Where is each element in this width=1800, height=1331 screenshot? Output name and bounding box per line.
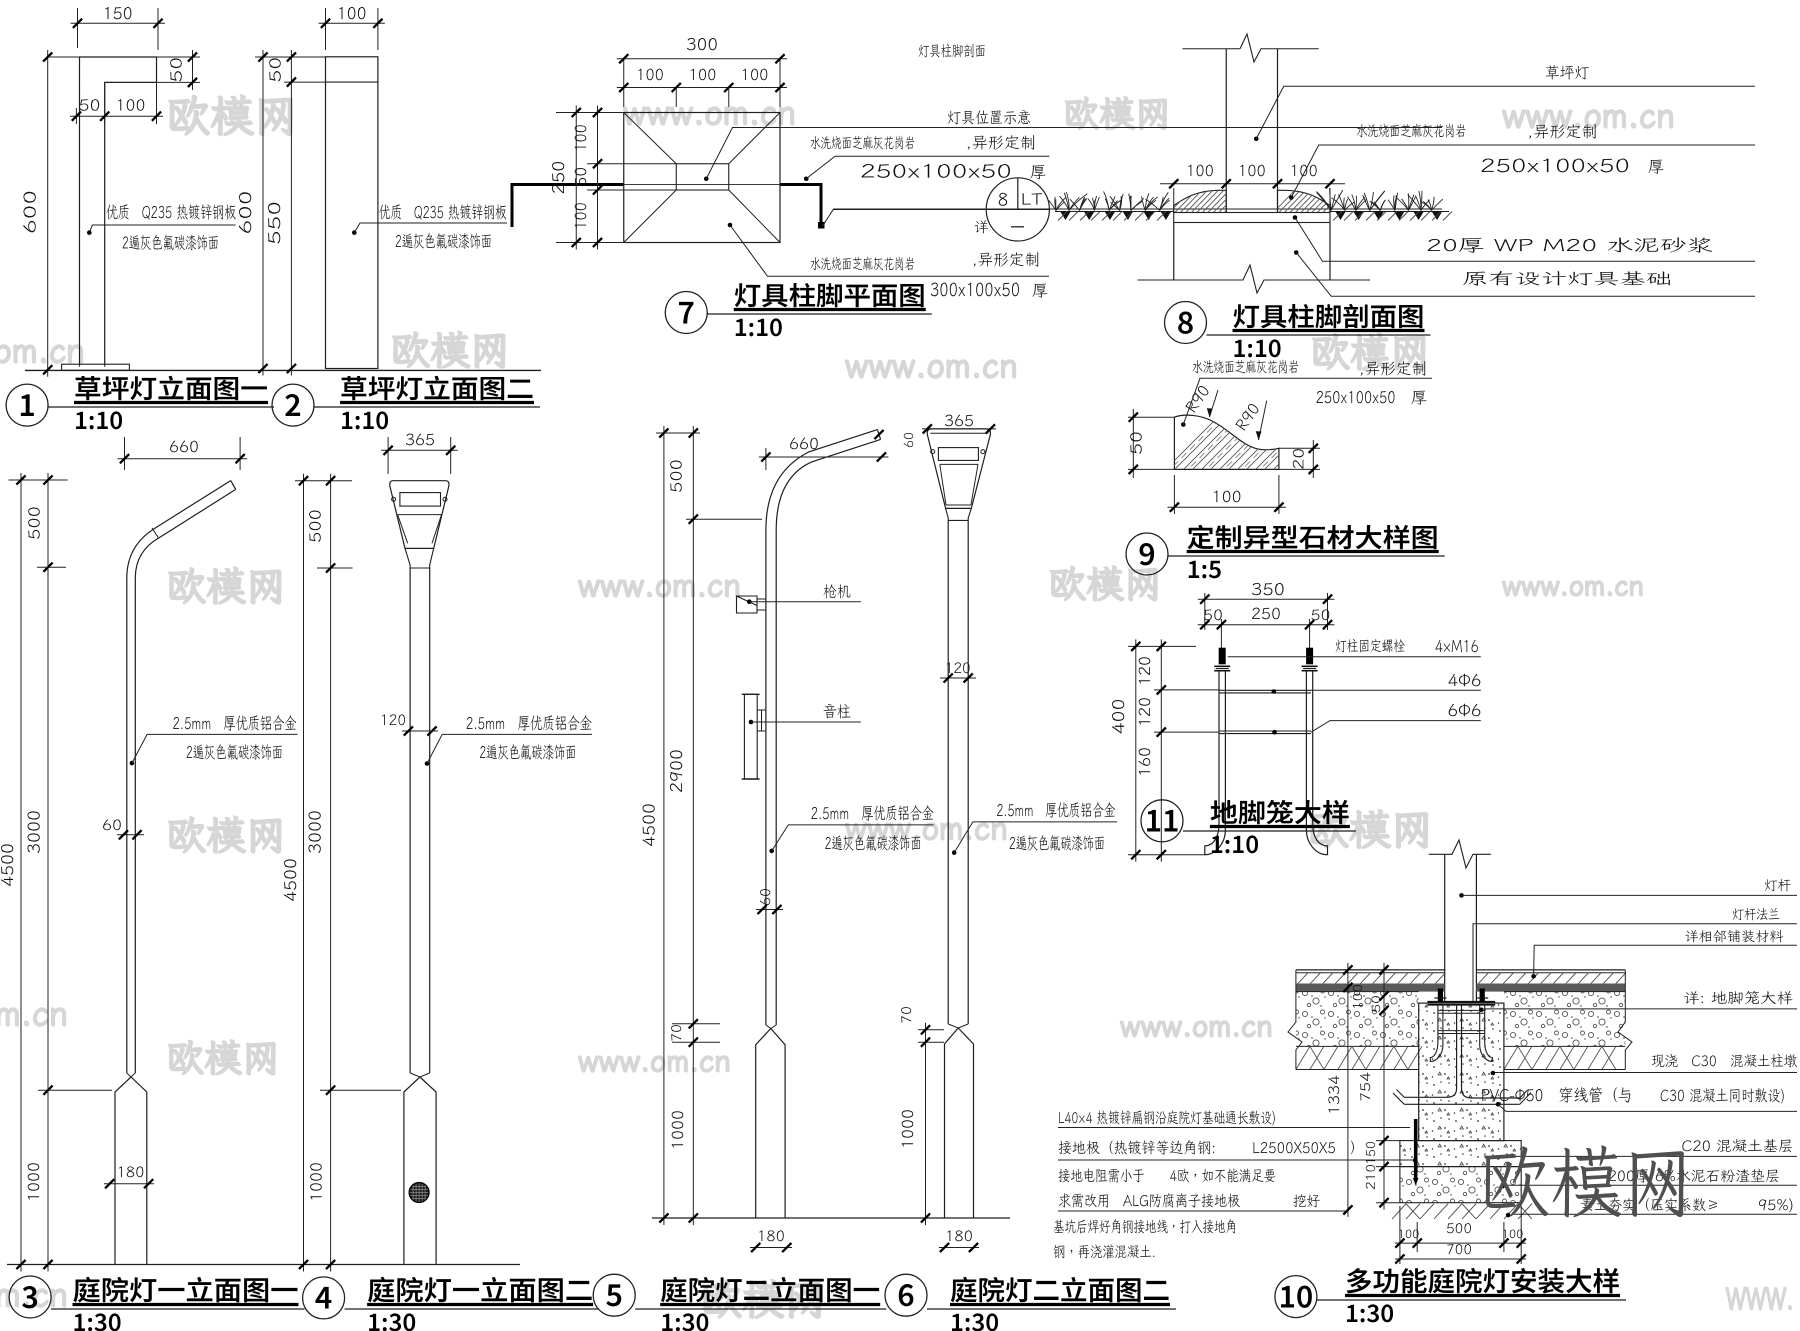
- ground line lamps 5-6: [652, 1217, 1010, 1219]
- svg-text:20厚 WP M20 水泥砂浆: 20厚 WP M20 水泥砂浆: [1426, 233, 1713, 256]
- leader lawn lamp d8: [1254, 136, 1259, 141]
- leader lamp2 material: [352, 230, 357, 235]
- d10 leader C20: [1496, 1155, 1501, 1160]
- foundation: [1173, 223, 1175, 281]
- dim 50 d9: [1128, 416, 1174, 418]
- svg-text:120: 120: [1133, 656, 1155, 686]
- svg-text:www.om.cn: www.om.cn: [845, 342, 1018, 387]
- svg-text:7: 7: [678, 288, 695, 332]
- svg-text:1:30: 1:30: [660, 1303, 709, 1331]
- svg-text:120: 120: [1133, 697, 1155, 727]
- leader to detail bubble 8: [822, 209, 1442, 227]
- svg-text:500: 500: [304, 509, 326, 543]
- title circle 3: [9, 1276, 51, 1318]
- dim 50 100 below arm lamp1: [75, 108, 77, 124]
- svg-text:250: 250: [546, 161, 569, 195]
- svg-text:100: 100: [569, 202, 591, 230]
- svg-text:现浇 C30 混凝土柱墩: 现浇 C30 混凝土柱墩: [1651, 1052, 1797, 1071]
- svg-text:50: 50: [1203, 606, 1223, 625]
- dim 100 d9: [1173, 475, 1175, 514]
- svg-text:www.om.cn: www.om.cn: [0, 990, 68, 1035]
- d10 pole top break: [1429, 840, 1491, 868]
- svg-text:100: 100: [337, 1, 367, 24]
- detail 8 grass right: [1330, 211, 1449, 213]
- svg-text:厚: 厚: [1030, 161, 1046, 183]
- svg-text:20: 20: [1290, 448, 1309, 470]
- svg-text:100: 100: [116, 94, 146, 116]
- svg-text:求需改用 ALG防腐离子接地极: 求需改用 ALG防腐离子接地极: [1058, 1191, 1240, 1211]
- svg-text:95%): 95%): [1758, 1196, 1794, 1215]
- svg-text:2遍灰色氟碳漆饰面: 2遍灰色氟碳漆饰面: [122, 231, 219, 254]
- title circle 4: [303, 1277, 345, 1319]
- svg-text:4×M16: 4×M16: [1435, 634, 1479, 657]
- dim chain lamp3: [9, 479, 68, 481]
- lamp4 speaker circle: [409, 1183, 429, 1203]
- dim chain lamp6: [918, 1029, 944, 1031]
- dim 100 top lamp2: [325, 8, 327, 50]
- svg-text:2.5mm 厚优质铝合金: 2.5mm 厚优质铝合金: [811, 801, 934, 824]
- lamp6 neck: [946, 508, 972, 520]
- lamp3 arm tip cap: [231, 481, 236, 490]
- d10 pole: [1444, 854, 1446, 1001]
- lamp4 head screws: [392, 497, 396, 501]
- lamp3 arm joint: [152, 528, 159, 538]
- title circle 2: [272, 384, 314, 426]
- svg-text:厚: 厚: [1032, 279, 1048, 301]
- svg-text:100: 100: [1186, 159, 1214, 181]
- svg-text:3000: 3000: [303, 810, 326, 854]
- d10 grounding rod: [1414, 1119, 1418, 1178]
- svg-text:水洗烧面芝麻灰花岗岩: 水洗烧面芝麻灰花岗岩: [1192, 358, 1299, 377]
- svg-text:600: 600: [233, 191, 256, 235]
- lamp6 head window: [938, 448, 978, 461]
- svg-text:180: 180: [945, 1227, 973, 1246]
- dim 300 top: [623, 59, 625, 107]
- svg-text:50: 50: [1311, 606, 1331, 625]
- detail ref bubble 8/LT: [986, 178, 1049, 241]
- svg-text:www.om.cn: www.om.cn: [0, 327, 85, 372]
- svg-text:1:10: 1:10: [734, 308, 783, 343]
- svg-text:100: 100: [569, 124, 591, 152]
- lamp5 speaker: [744, 694, 757, 779]
- d10 leader PVC: [1496, 1102, 1501, 1107]
- d10 flange plate: [1427, 1001, 1495, 1003]
- lamp3 pole: [127, 481, 231, 1073]
- mortar layer: [1174, 213, 1330, 223]
- lamp3 base: [127, 1073, 136, 1077]
- svg-text:180: 180: [757, 1227, 785, 1246]
- svg-text:,异形定制: ,异形定制: [1528, 120, 1598, 142]
- dim 100x3 detail8: [1160, 183, 1345, 185]
- anchor rods d11: [1205, 671, 1226, 855]
- leader speaker column: [749, 720, 754, 725]
- svg-text:www.om.cn: www.om.cn: [1120, 1005, 1273, 1045]
- svg-text:60: 60: [756, 888, 774, 906]
- d10 bottom dims: [1399, 1206, 1401, 1252]
- svg-text:250: 250: [1251, 602, 1281, 624]
- leader camera: [747, 599, 752, 604]
- svg-text:6Φ6: 6Φ6: [1448, 698, 1482, 721]
- section cut line: [512, 185, 624, 228]
- svg-text:欧模网: 欧模网: [166, 1032, 280, 1082]
- d10 soil hatch below foundation: [1392, 1204, 1532, 1219]
- svg-text:4Φ6: 4Φ6: [1448, 668, 1482, 691]
- svg-text:1:10: 1:10: [74, 401, 123, 436]
- svg-text:5: 5: [605, 1271, 622, 1315]
- svg-text:500: 500: [665, 459, 687, 493]
- lamp6 head inner: [940, 464, 978, 505]
- d10 layer edge breaks: [1288, 970, 1302, 1070]
- svg-text:欧模网: 欧模网: [1478, 1127, 1694, 1233]
- svg-text:2900: 2900: [664, 749, 687, 793]
- leader foundation d8: [1294, 250, 1299, 255]
- dim 120 lamp4: [402, 730, 438, 732]
- svg-text:50: 50: [1369, 995, 1384, 1013]
- tie bar 2: [1219, 730, 1311, 732]
- grass roots: [1060, 211, 1171, 220]
- svg-text:灯杆: 灯杆: [1764, 876, 1791, 894]
- svg-text:660: 660: [169, 435, 199, 457]
- svg-text:灯柱固定螺栓: 灯柱固定螺栓: [1335, 637, 1405, 656]
- svg-text:优质 Q235 热镀锌钢板: 优质 Q235 热镀锌钢板: [106, 200, 236, 223]
- svg-text:150: 150: [103, 1, 133, 24]
- svg-text:120: 120: [380, 711, 406, 730]
- svg-text:500: 500: [1446, 1219, 1472, 1237]
- svg-text:60: 60: [900, 432, 917, 448]
- svg-text:6: 6: [897, 1271, 914, 1315]
- svg-text:11: 11: [1145, 797, 1180, 841]
- svg-text:100: 100: [1398, 1227, 1420, 1242]
- svg-text:欧模网: 欧模网: [1063, 90, 1171, 137]
- soil hatch: [1333, 212, 1452, 221]
- d10 dim line A 1334: [1340, 969, 1400, 971]
- svg-text:3: 3: [21, 1273, 38, 1317]
- lawn lamp 1 body: [80, 57, 157, 367]
- svg-text:WWW.: WWW.: [1725, 1278, 1794, 1318]
- lamp4 head: [390, 481, 449, 549]
- d10 pier: [1419, 1003, 1504, 1141]
- svg-text:1000: 1000: [305, 1162, 327, 1202]
- svg-text:L2500X50X5 ）: L2500X50X5 ）: [1252, 1138, 1364, 1158]
- svg-text:2遍灰色氟碳漆饰面: 2遍灰色氟碳漆饰面: [395, 229, 492, 252]
- d10 paving layers: [1296, 969, 1445, 971]
- leader bolts d11: [1228, 656, 1481, 658]
- lamp6 head screws: [931, 450, 935, 454]
- dim chain lamp4: [295, 480, 352, 482]
- stone mound right: [1278, 190, 1331, 212]
- svg-text:2遍灰色氟碳漆饰面: 2遍灰色氟碳漆饰面: [1009, 831, 1105, 854]
- d10 tie bars: [1438, 1009, 1485, 1011]
- dim 600 lamp1: [48, 56, 80, 58]
- svg-text:基坑后焊好角钢接地线，打入接地角: 基坑后焊好角钢接地线，打入接地角: [1053, 1217, 1237, 1237]
- svg-text:100: 100: [1238, 159, 1266, 181]
- detail 8 post top break: [1183, 34, 1319, 62]
- svg-text:1: 1: [18, 381, 35, 425]
- title circle 7: [665, 292, 707, 334]
- svg-text:挖好: 挖好: [1293, 1192, 1320, 1211]
- svg-text:10: 10: [1278, 1272, 1313, 1316]
- lamp6 head inner top: [930, 432, 987, 434]
- svg-text:100: 100: [1349, 984, 1366, 1010]
- lamp4 pole: [409, 568, 411, 1073]
- svg-text:2.5mm 厚优质铝合金: 2.5mm 厚优质铝合金: [173, 711, 297, 734]
- svg-text:1:30: 1:30: [950, 1303, 999, 1331]
- leader mortar d8: [1293, 215, 1298, 220]
- grass roots: [1335, 211, 1443, 220]
- svg-text:550: 550: [262, 201, 285, 245]
- dim 50/250/50 d11: [1220, 619, 1222, 652]
- dim chain lamp5: [656, 432, 700, 434]
- svg-text:2.5mm 厚优质铝合金: 2.5mm 厚优质铝合金: [996, 798, 1115, 821]
- svg-text:365: 365: [405, 428, 435, 450]
- svg-text:9: 9: [1138, 530, 1155, 574]
- svg-text:1:10: 1:10: [1210, 825, 1259, 860]
- svg-text:枪机: 枪机: [823, 580, 851, 602]
- dim 120 lamp6: [940, 677, 976, 679]
- svg-text:100: 100: [689, 63, 717, 85]
- svg-text:600: 600: [18, 190, 41, 234]
- svg-text:1:30: 1:30: [73, 1303, 122, 1331]
- svg-text:1:30: 1:30: [367, 1303, 416, 1331]
- lamp4 base: [410, 1073, 430, 1077]
- title circle 6: [885, 1274, 927, 1316]
- svg-text:365: 365: [944, 409, 974, 431]
- svg-text:210: 210: [1362, 1164, 1379, 1190]
- lawn lamp 2 cap line: [326, 81, 378, 83]
- d10 leader C30 pier: [1491, 1071, 1496, 1076]
- detail 7 outer rect: [624, 113, 780, 243]
- leader lamp5 material: [769, 849, 774, 854]
- lamp5 camera: [737, 596, 766, 613]
- svg-text:70: 70: [667, 1024, 685, 1042]
- svg-text:PVC-Φ50 穿线管（与: PVC-Φ50 穿线管（与: [1481, 1083, 1633, 1106]
- d10 leader soil: [1506, 1213, 1511, 1218]
- ground line lamps 1-2: [25, 369, 541, 371]
- leader lamp6 material: [952, 850, 957, 855]
- svg-text:1000: 1000: [666, 1110, 688, 1150]
- svg-text:详: 地脚笼大样: 详: 地脚笼大样: [1683, 989, 1793, 1008]
- svg-text:水洗烧面芝麻灰花岗岩: 水洗烧面芝麻灰花岗岩: [810, 134, 915, 153]
- title circle 10: [1275, 1276, 1317, 1318]
- dim 365 lamp6: [922, 428, 996, 430]
- svg-text:www.om.cn: www.om.cn: [578, 1040, 731, 1080]
- svg-text:100: 100: [1212, 485, 1242, 507]
- svg-text:LT: LT: [1021, 188, 1043, 210]
- leader lamp position: [704, 176, 709, 181]
- svg-text:灯具位置示意: 灯具位置示意: [947, 106, 1031, 128]
- svg-text:接地极（热镀锌等边角钢:: 接地极（热镀锌等边角钢:: [1058, 1138, 1216, 1158]
- grass tufts: [1316, 188, 1442, 211]
- svg-text:300: 300: [686, 32, 718, 55]
- svg-text:,异形定制: ,异形定制: [972, 248, 1040, 270]
- dim 60 lamp5: [756, 909, 783, 911]
- leader 4phi6: [1272, 689, 1277, 694]
- svg-text:L40×4 热镀锌扁钢沿庭院灯基础通长敷设): L40×4 热镀锌扁钢沿庭院灯基础通长敷设): [1058, 1108, 1276, 1128]
- d10 leader adjacent paving: [1531, 974, 1536, 979]
- dim 50 and 550 lamp2: [284, 81, 326, 83]
- svg-text:3000: 3000: [22, 810, 45, 854]
- svg-text:60: 60: [102, 816, 122, 835]
- title circle 1: [6, 384, 48, 426]
- svg-text:1:30: 1:30: [1345, 1294, 1394, 1329]
- svg-text:厚: 厚: [1648, 155, 1664, 177]
- d10 leader flange: [1473, 924, 1797, 1001]
- d10 foundation: [1400, 1141, 1521, 1167]
- d10 leader lamp pole: [1459, 893, 1464, 898]
- svg-text:250x100x50: 250x100x50: [860, 159, 1012, 184]
- d10 anchor bolts: [1438, 989, 1443, 1002]
- svg-text:300x100x50: 300x100x50: [930, 277, 1020, 302]
- dim 180 lamp3: [104, 1183, 154, 1185]
- svg-text:1334: 1334: [1325, 1075, 1344, 1115]
- svg-text:2遍灰色氟碳漆饰面: 2遍灰色氟碳漆饰面: [479, 740, 576, 763]
- svg-text:700: 700: [1446, 1240, 1472, 1258]
- svg-text:754: 754: [1356, 1072, 1374, 1102]
- svg-text:水洗烧面芝麻灰花岗岩: 水洗烧面芝麻灰花岗岩: [810, 255, 915, 274]
- svg-text:www.om.cn: www.om.cn: [1502, 566, 1644, 603]
- svg-text:100: 100: [636, 63, 664, 85]
- title circle 5: [593, 1274, 635, 1316]
- lamp5 pole and arm: [766, 430, 878, 1025]
- dim 600 lamp2: [255, 56, 326, 58]
- svg-text:50: 50: [165, 57, 187, 83]
- svg-text:www.om.cn: www.om.cn: [578, 564, 741, 606]
- ground line lamps 3-4: [7, 1264, 520, 1266]
- svg-text:详相邻铺装材料: 详相邻铺装材料: [1684, 927, 1783, 945]
- dim 660 lamp5: [765, 448, 767, 470]
- dim 365 lamp4: [387, 437, 389, 474]
- d10 dim line B: [1376, 1140, 1400, 1142]
- grass tufts: [1049, 191, 1170, 210]
- svg-text:C30 混凝土同时敷设): C30 混凝土同时敷设): [1660, 1084, 1785, 1106]
- d10 PVC conduit: [1404, 1005, 1520, 1105]
- dim 120/120/160 d11: [1154, 689, 1219, 691]
- dim 150 top lamp1: [77, 8, 79, 48]
- svg-text:4500: 4500: [0, 843, 18, 887]
- leader lamp1 material: [87, 230, 92, 235]
- svg-text:4500: 4500: [278, 858, 301, 902]
- svg-text:50: 50: [79, 94, 101, 116]
- svg-text:400: 400: [1106, 699, 1129, 735]
- svg-text:50: 50: [264, 57, 286, 83]
- dim 250 left: [556, 112, 624, 114]
- detail 8 grass left: [1055, 211, 1174, 213]
- svg-text:100: 100: [741, 63, 769, 85]
- svg-text:2.5mm 厚优质铝合金: 2.5mm 厚优质铝合金: [466, 711, 592, 734]
- svg-text:2遍灰色氟碳漆饰面: 2遍灰色氟碳漆饰面: [825, 831, 922, 854]
- svg-text:160: 160: [1133, 747, 1155, 777]
- svg-text:优质 Q235 热镀锌钢板: 优质 Q235 热镀锌钢板: [379, 200, 507, 223]
- svg-text:灯具柱脚剖面: 灯具柱脚剖面: [918, 42, 986, 61]
- svg-text:2: 2: [284, 381, 301, 425]
- leader 6phi6: [1272, 730, 1277, 735]
- leader stone 250: [804, 176, 809, 181]
- svg-text:欧模网: 欧模网: [166, 560, 286, 612]
- lamp6 pole: [947, 520, 949, 1024]
- dim 350 d11: [1204, 593, 1206, 630]
- leader lamp3 material: [130, 761, 135, 766]
- svg-text:1:10: 1:10: [340, 401, 389, 436]
- svg-text:120: 120: [945, 659, 971, 678]
- svg-text:欧模网: 欧模网: [166, 809, 286, 861]
- detail 7 diagonals: [624, 113, 677, 164]
- dim 60 lamp3: [117, 834, 144, 836]
- detail 8 post: [1225, 49, 1227, 213]
- svg-text:详: 详: [973, 218, 988, 237]
- soil hatch: [1058, 212, 1166, 221]
- svg-text:50: 50: [569, 167, 591, 187]
- svg-text:8: 8: [1177, 298, 1194, 342]
- svg-text:150: 150: [1362, 1141, 1379, 1165]
- d10 anchor rods: [1430, 1005, 1443, 1062]
- lamp6 base: [948, 1024, 968, 1028]
- svg-text:1000: 1000: [22, 1162, 44, 1202]
- lamp6 head: [927, 429, 990, 509]
- svg-text:250x100x50: 250x100x50: [1316, 385, 1396, 408]
- leader lamp4 material: [425, 761, 430, 766]
- svg-text:100: 100: [1290, 159, 1318, 181]
- svg-text:350: 350: [1251, 577, 1285, 600]
- lamp4 head inner: [398, 514, 442, 516]
- anchor bolts d11: [1219, 648, 1226, 665]
- svg-text:1:5: 1:5: [1187, 550, 1222, 585]
- svg-text:,异形定制: ,异形定制: [966, 131, 1036, 153]
- title circle 9: [1126, 533, 1168, 575]
- svg-text:500: 500: [23, 506, 45, 540]
- svg-text:定制异型石材大样图: 定制异型石材大样图: [1187, 518, 1439, 555]
- leader stone d8: [1289, 195, 1294, 200]
- svg-text:50: 50: [1125, 431, 1147, 455]
- svg-text:C20 混凝土基层: C20 混凝土基层: [1682, 1137, 1794, 1156]
- svg-text:接地电阻需小于 4欧，如不能满足要: 接地电阻需小于 4欧，如不能满足要: [1058, 1166, 1276, 1186]
- svg-text:厚: 厚: [1411, 386, 1427, 408]
- lawn lamp 2 body: [326, 57, 378, 369]
- leader stone d9: [1181, 422, 1186, 427]
- dim 20 d9: [1279, 447, 1320, 449]
- lamp4 neck: [405, 548, 434, 568]
- svg-text:欧模网: 欧模网: [166, 86, 298, 144]
- title circle 8: [1165, 302, 1207, 344]
- svg-text:钢，再浇灌混凝土.: 钢，再浇灌混凝土.: [1053, 1242, 1156, 1262]
- tie bar 1: [1219, 689, 1311, 691]
- svg-text:,异形定制: ,异形定制: [1359, 357, 1427, 379]
- dim 180 lamp5: [750, 1247, 792, 1249]
- svg-text:原有设计灯具基础: 原有设计灯具基础: [1462, 267, 1672, 289]
- dim 100/50/100 left: [587, 163, 676, 165]
- svg-text:水洗烧面芝麻灰花岗岩: 水洗烧面芝麻灰花岗岩: [1356, 122, 1466, 141]
- d10 leader cushion: [1500, 1184, 1505, 1189]
- svg-text:灯杆法兰: 灯杆法兰: [1732, 905, 1780, 923]
- svg-text:660: 660: [789, 432, 819, 454]
- svg-text:音柱: 音柱: [823, 700, 851, 722]
- lawn lamp 1 base plate: [62, 364, 130, 370]
- dim 50 right of arm lamp1: [157, 56, 201, 58]
- svg-text:4: 4: [315, 1274, 332, 1318]
- dim 400 d11: [1128, 645, 1196, 647]
- dim 100x3 top: [617, 87, 787, 89]
- svg-text:180: 180: [117, 1163, 145, 1182]
- lamp5 arm tip cap: [877, 430, 880, 440]
- svg-text:250x100x50: 250x100x50: [1480, 153, 1630, 178]
- svg-text:草坪灯: 草坪灯: [1545, 61, 1589, 83]
- lamp4 head window: [400, 493, 441, 507]
- svg-text:2遍灰色氟碳漆饰面: 2遍灰色氟碳漆饰面: [186, 740, 283, 763]
- svg-text:4500: 4500: [636, 803, 659, 847]
- d10 leader anchor cage ref: [1479, 1008, 1484, 1013]
- title circle 11: [1141, 800, 1183, 842]
- svg-text:70: 70: [897, 1006, 915, 1024]
- leader stone 300: [728, 223, 733, 228]
